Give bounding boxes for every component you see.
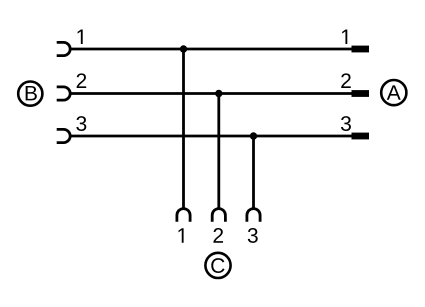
junction dot node 1: [180, 45, 187, 52]
pin number 2 (bottom, C side): [213, 228, 223, 243]
wire node 2 to C2: [217, 94, 220, 209]
plug terminal A pin 1: [352, 46, 370, 53]
socket B pin 1: [57, 42, 70, 55]
pin number 2 (left, B side): [77, 73, 87, 88]
pin number 1 (bottom, C side): [178, 228, 183, 242]
junction dot node 3: [250, 132, 257, 139]
socket C pin 1: [177, 209, 190, 222]
junction dot node 2: [215, 90, 222, 97]
terminal group marker A (circle): [381, 80, 406, 105]
wire B3 to A3: [70, 135, 352, 138]
terminal group letter B: [26, 86, 37, 100]
pin number 3 (left, B side): [76, 116, 86, 131]
wire B2 to A2: [70, 92, 352, 95]
terminal group marker B (circle): [18, 82, 42, 106]
terminal group marker C (circle): [205, 253, 230, 278]
pin number 1 (right, A side): [342, 30, 347, 44]
pin number 3 (bottom, C side): [248, 228, 258, 243]
pin number 3 (right, A side): [341, 116, 351, 131]
pin number 1 (left, B side): [78, 30, 83, 44]
socket B pin 3: [57, 129, 71, 142]
terminal group letter C: [211, 258, 224, 273]
socket C pin 2: [212, 209, 225, 222]
pin number 2 (right, A side): [341, 73, 351, 88]
plug terminal A pin 3: [352, 133, 370, 140]
plug terminal A pin 2: [352, 90, 370, 97]
socket B pin 2: [57, 87, 71, 100]
socket C pin 3: [247, 209, 260, 222]
terminal group letter A: [387, 85, 401, 99]
wire node 1 to C1: [182, 49, 185, 209]
wire B1 to A1: [70, 48, 352, 51]
wire node 3 to C3: [252, 136, 255, 209]
